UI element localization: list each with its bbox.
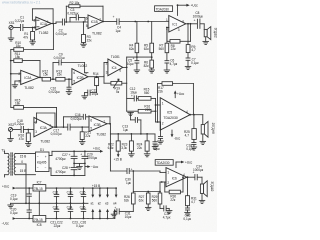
resistor R23 — [121, 134, 134, 157]
wire IC6 pin1 input — [129, 171, 166, 172]
capacitor C10 — [49, 79, 72, 94]
op-amp IC2A TL082 — [11, 70, 39, 90]
caption C23 C26 — [72, 221, 86, 229]
capacitor C23 — [67, 188, 73, 203]
resistor R16a — [127, 104, 156, 113]
gnd mid rail — [8, 202, 88, 208]
wire IC3A out — [53, 126, 61, 128]
resistor R21 — [80, 127, 91, 142]
wire TL081 inputs — [104, 63, 108, 84]
label -Ucc arrow psu — [85, 165, 99, 169]
feedback wire IC3A — [34, 113, 55, 127]
wire IC5 out — [189, 114, 203, 116]
capacitor C20 — [10, 203, 31, 218]
capacitor C24 — [67, 203, 73, 218]
wire bridge minus to rail — [49, 168, 85, 175]
capacitor C33 — [183, 208, 191, 221]
wire mid node gnd — [73, 163, 85, 170]
capacitor C12 — [127, 83, 139, 111]
capacitor C14 — [193, 164, 204, 180]
speaker BA2 — [201, 115, 215, 138]
resistor R6 — [144, 60, 155, 73]
capacitor C2 — [56, 19, 68, 36]
capacitor C9 feedback — [53, 52, 88, 79]
+Ucc arrow IC6 — [176, 161, 193, 168]
resistor R12 — [42, 69, 56, 81]
wire IC5 pin1 — [155, 104, 161, 106]
ground IC2A pin3 — [12, 81, 21, 88]
node bus wire — [10, 50, 12, 108]
wire C1 to IC1A — [23, 27, 36, 29]
capacitor C4 — [113, 15, 122, 33]
wire bridge plus to rail — [49, 147, 103, 156]
wire IC4a pin2 — [166, 27, 169, 29]
speaker BA3 — [198, 177, 214, 196]
capacitor C17 — [51, 124, 71, 136]
op-amp IC6 TDA2030 — [166, 168, 187, 187]
resistor R13 — [56, 69, 72, 81]
output arrows minus15 — [88, 209, 116, 220]
caption C21 C22 — [50, 221, 63, 229]
capacitor C19 — [10, 188, 31, 203]
op-amp IC4a TDA2030 top — [155, 6, 186, 32]
resistor R15 — [11, 98, 57, 127]
resistor R26 — [124, 193, 135, 211]
capacitor C22 — [53, 203, 59, 218]
resistor R24 — [137, 134, 150, 157]
regulator mid pins — [38, 191, 40, 216]
capacitor C27 — [55, 151, 77, 163]
capacitor C18 — [14, 119, 24, 133]
capacitor C21 — [53, 188, 59, 203]
op-amp IC5 TDA2030 — [160, 98, 190, 130]
output arrows plus15 — [91, 187, 118, 205]
+15 rail — [46, 184, 116, 189]
capacitor C6 — [164, 59, 178, 73]
capacitor C30 — [110, 167, 132, 185]
resistor R29 — [152, 181, 166, 208]
-Ucc arrow IC5 — [171, 130, 181, 141]
capacitor C15 — [152, 134, 158, 150]
+Ucc arrow IC5 — [174, 90, 185, 97]
wire center tap down — [25, 164, 27, 204]
capacitor C11 — [82, 88, 99, 98]
ground under R1 — [30, 42, 36, 45]
wire C18 to IC3A — [24, 129, 34, 131]
speaker BA1 — [204, 24, 217, 40]
ground under BA2 — [200, 134, 206, 144]
resistor R15a — [138, 87, 155, 100]
capacitor C8 — [193, 11, 205, 28]
resistor R8 feedback — [167, 24, 191, 51]
input jack XS2 — [8, 123, 14, 132]
wire C5 junction from IC2B — [97, 75, 104, 77]
resistor R4 — [129, 22, 139, 61]
wire bias line IC5 — [110, 133, 155, 135]
transformer secondary taps — [15, 153, 35, 174]
resistor R11 feedback — [11, 52, 40, 77]
ground under BA1 — [203, 37, 209, 45]
capacitor C28 — [55, 163, 77, 176]
wire IC1B out to C4 — [102, 21, 116, 23]
wire XS1 to C1 — [13, 27, 20, 29]
ground stub above C13 — [128, 113, 141, 134]
wire signal down from row3 — [109, 134, 111, 171]
resistor R3 — [82, 22, 93, 44]
ground under R21 — [79, 142, 85, 145]
ground under XS2 — [8, 132, 14, 142]
wire IC3B out — [107, 123, 111, 125]
wire TL081 out — [123, 67, 128, 84]
capacitor C26 — [80, 203, 86, 218]
op-amp IC2B TL082 — [72, 64, 88, 85]
wire IC4a out — [186, 23, 197, 25]
regulator 78L15 — [33, 180, 46, 191]
capacitor C7 — [185, 58, 199, 70]
wire C2 to IC1B — [65, 21, 88, 23]
op-amp IC3A TL082 — [34, 117, 53, 143]
ground under R3 — [81, 44, 87, 47]
wire IC2B out — [88, 76, 98, 78]
capacitor C3 feedback — [67, 8, 85, 22]
resistor R16 — [18, 130, 30, 144]
capacitor C13 — [110, 124, 128, 134]
label TDA2030 IC6 — [155, 160, 173, 166]
resistor R2 feedback — [66, 1, 103, 22]
capacitor C25 — [80, 188, 86, 203]
wire summing node — [127, 56, 153, 67]
capacitor C14a — [153, 121, 163, 151]
ground under XS1 — [8, 30, 14, 41]
wire C17 to IC3B — [61, 126, 89, 128]
resistor R9 — [186, 24, 196, 58]
wire XS2 to C18 — [13, 129, 21, 131]
capacitor C29 — [80, 151, 97, 175]
resistor R31 — [186, 177, 198, 208]
feedback wire IC1A — [32, 9, 53, 24]
capacitor C1 — [15, 16, 25, 31]
capacitor C32 — [160, 206, 172, 220]
wire C4 to IC4 — [120, 21, 170, 23]
capacitor C31 — [111, 206, 133, 219]
input jack XS1 — [9, 21, 15, 30]
-15 rail — [46, 218, 88, 220]
resistor R10 — [11, 24, 54, 52]
ground under R16 — [26, 144, 32, 147]
+Ucc rail IC4a — [177, 4, 199, 16]
label -Ucc rail — [2, 217, 33, 226]
resistor R14 — [93, 72, 99, 92]
wire IC2A out — [39, 77, 42, 80]
label +Ucc rail — [2, 185, 33, 190]
resistor R27 — [139, 192, 151, 211]
ground under BA3 — [199, 193, 205, 203]
resistor R1 — [23, 28, 34, 42]
capacitor C19a — [186, 143, 197, 151]
transformer T1 — [1, 149, 15, 177]
capacitor C5 — [127, 57, 140, 73]
op-amp IC1A TL082 — [34, 17, 52, 35]
resistor R22 — [108, 134, 121, 158]
resistor R7 — [159, 28, 169, 61]
resistor R30 feedback — [165, 177, 183, 202]
wire IC6 out — [182, 176, 194, 178]
resistor R17 feedback IC5 — [158, 82, 194, 122]
regulator 79L15 — [33, 216, 46, 228]
potentiometer R19 — [104, 79, 127, 94]
label +15V — [114, 158, 122, 162]
diode bridge D1 — [36, 148, 50, 171]
wire IC1A out — [52, 22, 63, 24]
wire network to IC5 — [155, 98, 161, 122]
capacitor C16 feedback — [64, 113, 111, 127]
resistor R25 — [184, 115, 196, 143]
resistor R5 — [144, 22, 154, 61]
wire bias line IC6 — [132, 170, 161, 193]
op-amp TL081 — [106, 55, 123, 76]
op-amp IC1B TL082 — [86, 15, 103, 35]
op-amp IC3B TL082 — [89, 116, 107, 136]
